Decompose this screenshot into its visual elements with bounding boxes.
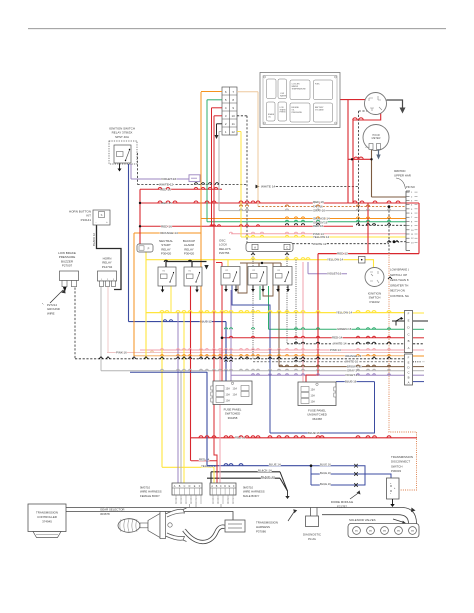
stub A blue (413, 381, 424, 383)
wire dashed riser 247 (246, 116, 248, 244)
wire dotted riser 296 (295, 260, 297, 344)
stub D green (413, 328, 424, 330)
wire BLUE 16 mid (270, 432, 375, 434)
ground wire leader (50, 290, 63, 303)
wire dotted riser 287 (286, 252, 288, 267)
svg-text:YELLOW 14: YELLOW 14 (336, 311, 352, 315)
wire brown from hour meter (371, 150, 373, 197)
svg-text:A: A (408, 381, 410, 385)
wire BLACK 16 horn (97, 225, 122, 290)
wire red hour meter feed (348, 158, 373, 160)
wire blue to disconnect switch b (356, 474, 365, 485)
relay K5 OSC lock 3 (273, 267, 292, 286)
svg-text:FEMALE BODY: FEMALE BODY (140, 494, 160, 498)
wire dashed stub (237, 115, 247, 117)
svg-text:GEAR SELECTOR: GEAR SELECTOR (100, 508, 125, 512)
relay K1 neutral start (158, 267, 176, 286)
svg-text:P16141: P16141 (81, 218, 92, 222)
svg-text:F: F (408, 355, 410, 359)
transmission controller (28, 504, 66, 532)
svg-text:8: 8 (411, 221, 413, 223)
top rule line (28, 28, 446, 30)
svg-text:GREATER TH: GREATER TH (390, 283, 408, 287)
bumps red 16 main (158, 201, 400, 203)
svg-text:YELLOW 14: YELLOW 14 (327, 258, 343, 262)
wire brown weave 1 (238, 263, 247, 293)
stub B dashed (413, 343, 424, 345)
junction dot blue (310, 464, 313, 467)
bumps orange 16 lower (161, 355, 391, 356)
svg-text:PRESSURE: PRESSURE (292, 112, 303, 114)
harness connector A (upper) (405, 311, 413, 353)
svg-text:PIN NO: PIN NO (406, 185, 415, 189)
relay K4 OSC lock 2 (248, 267, 267, 286)
svg-text:A: A (408, 346, 410, 350)
wire red riser 368 (367, 203, 369, 254)
wire yellow into connector B (213, 467, 215, 483)
svg-text:15A: 15A (311, 389, 316, 392)
stub D brown (413, 366, 424, 368)
wire red stub 2 (214, 115, 222, 117)
svg-text:CONTROLLER: CONTROLLER (37, 515, 57, 519)
junction dot brown (261, 262, 263, 264)
svg-text:SPST 40A: SPST 40A (115, 135, 129, 139)
wire red to fuse panel 2 (306, 254, 318, 382)
svg-text:P37086: P37086 (256, 530, 266, 534)
ignition switch relay (109, 141, 137, 164)
junction dot red bus 1 (139, 202, 141, 204)
svg-text:15A: 15A (226, 388, 231, 391)
svg-text:2: 2 (195, 499, 196, 501)
svg-text:WHITE-14: WHITE-14 (333, 342, 347, 346)
bump red keyswitch (353, 118, 363, 120)
wire yellow into ignition switch (365, 260, 374, 268)
bumps orange 14 (285, 217, 390, 219)
X marks blue stubs (354, 464, 358, 468)
svg-text:10: 10 (411, 230, 414, 232)
bumps green 16 (285, 220, 390, 222)
svg-text:BLUE 16: BLUE 16 (308, 431, 320, 435)
wire BLUE 16 stub 1 (311, 465, 356, 467)
wire tan stub (237, 91, 258, 93)
wire dotted riser 287 lower (286, 267, 288, 344)
bumps blue 14 (224, 464, 243, 466)
svg-text:12: 12 (232, 130, 236, 134)
bumps red lower (229, 336, 390, 338)
pin connector bracket (406, 191, 410, 251)
wire red riser 419 (418, 203, 420, 254)
svg-text:P27007: P27007 (62, 264, 73, 268)
svg-text:*-: *- (42, 302, 44, 306)
wire blue riser 226 (225, 322, 227, 381)
wire orange riser left (133, 233, 135, 356)
wire red riser 348 (347, 100, 349, 203)
wire VIOLET 16 to ignition switch (308, 273, 347, 275)
svg-text:WHITE-16: WHITE-16 (345, 360, 358, 364)
wire yellow stub (237, 131, 241, 133)
svg-text:6: 6 (217, 499, 218, 501)
svg-text:SWITCH: OP: SWITCH: OP (390, 273, 407, 277)
svg-text:D: D (189, 485, 191, 488)
svg-text:BLUE 16: BLUE 16 (320, 482, 331, 486)
wire orange riser 201 (200, 92, 202, 356)
wire violet riser 178 (177, 313, 179, 483)
bumps yellow 14 upper (245, 235, 304, 237)
svg-text:PLUG: PLUG (308, 537, 317, 541)
wire ORANGE-16 (134, 355, 405, 357)
svg-text:DIODE MODULE: DIODE MODULE (331, 500, 353, 504)
wire VIOLET 14 (231, 374, 405, 376)
svg-text:13: 13 (411, 242, 414, 244)
svg-text:RED 12: RED 12 (337, 252, 348, 256)
svg-text:BLUE 12: BLUE 12 (200, 320, 212, 324)
svg-text:VOLTAGE: VOLTAGE (315, 109, 324, 112)
svg-text:WHITE 12: WHITE 12 (159, 183, 174, 187)
wire black stub pin2 (216, 124, 218, 136)
svg-text:D: D (224, 485, 226, 488)
svg-text:METER: METER (372, 137, 381, 140)
OSC relay connector strip (246, 243, 293, 252)
junction dot (351, 158, 353, 160)
wire BROWN 16 (279, 366, 405, 368)
svg-text:364458: 364458 (312, 417, 322, 421)
wire brown hour meter to pin 2 (372, 196, 407, 198)
wire blue riser 270 (269, 371, 271, 433)
bumps black relay bus (164, 260, 192, 262)
svg-text:PRESS: PRESS (280, 112, 287, 114)
wire brown weave 2 (258, 263, 260, 267)
svg-text:1: 1 (185, 503, 186, 505)
svg-text:D: D (407, 325, 409, 329)
chevrons under OSC strip (251, 253, 289, 255)
wire dotted riser 253 (252, 252, 254, 359)
svg-text:UPPER HAR: UPPER HAR (394, 174, 411, 178)
svg-text:P: P (148, 247, 150, 251)
wire dashed riser 358 (358, 111, 360, 225)
wire GRAY-14 (101, 370, 405, 372)
svg-text:SOLENOID VALVES: SOLENOID VALVES (349, 518, 376, 522)
bumps pink lower (161, 349, 391, 350)
wire RED 16 b (140, 225, 353, 227)
wire yellow riser 184 (183, 313, 185, 483)
chevrons dashed right (387, 240, 399, 242)
stub F yellow (413, 312, 424, 314)
wire green riser 207 (206, 100, 208, 222)
wire gray riser 181 (180, 371, 182, 483)
svg-text:YELLOW 14: YELLOW 14 (313, 235, 329, 239)
svg-text:2: 2 (227, 499, 228, 501)
svg-text:WATER: WATER (280, 94, 287, 97)
wire RED-16 bottom (191, 437, 417, 439)
wire brown relay bus (240, 262, 281, 264)
svg-text:7: 7 (411, 217, 413, 219)
black jumper relays (166, 262, 207, 268)
svg-text:VIOLET 16: VIOLET 16 (161, 177, 177, 181)
wire red keyswitch loop (353, 111, 381, 203)
wire BLUE 14 (207, 465, 311, 467)
svg-text:C: C (407, 332, 409, 336)
svg-text:3: 3 (190, 503, 191, 505)
svg-text:P11002: P11002 (369, 300, 379, 304)
bumps gray 16 (239, 209, 390, 211)
svg-text:D: D (407, 366, 409, 370)
svg-text:10A: 10A (311, 401, 316, 404)
wire yellow riser 241 (240, 132, 242, 238)
svg-text:GREEN 16: GREEN 16 (337, 327, 352, 331)
wire green riser 268 (268, 286, 270, 329)
wire pink riser 303 (302, 262, 304, 382)
wire pale pink from horn relay (107, 287, 109, 353)
junction dot dashed (393, 240, 396, 243)
svg-text:P30420: P30420 (161, 252, 172, 256)
svg-text:ORANGE 14: ORANGE 14 (160, 231, 178, 235)
svg-text:303678: 303678 (100, 512, 110, 516)
svg-text:B: B (408, 376, 410, 380)
wire blue to disconnect switch a (356, 466, 365, 474)
keyswitch circle (365, 93, 387, 115)
harness bracket risers (190, 504, 222, 508)
wire blue 12 riser (128, 164, 130, 322)
svg-text:SWITCH: SWITCH (391, 464, 402, 468)
svg-text:PINK 16: PINK 16 (116, 351, 127, 355)
wire violet from relay (130, 164, 132, 179)
svg-text:***: *** (422, 362, 425, 364)
wire dashed to pin 12 (389, 241, 406, 243)
svg-text:VIOLET 16: VIOLET 16 (327, 272, 342, 276)
gear bracket (160, 512, 166, 539)
wire YELLOW 14 upper (241, 236, 406, 238)
svg-text:LESS THAN 8: LESS THAN 8 (390, 278, 409, 282)
svg-text:TRANSMISSION: TRANSMISSION (36, 511, 58, 515)
wire green from OSC relay (259, 286, 261, 300)
svg-text:4: 4 (180, 503, 181, 505)
horn button kit (93, 210, 110, 225)
bumps violet 14 (252, 374, 391, 375)
wire WHITE-16 (253, 361, 405, 363)
wire YELLOW 14 long (146, 312, 410, 314)
svg-text:FUEL: FUEL (315, 84, 320, 86)
svg-text:8: 8 (227, 503, 228, 505)
svg-text:2: 2 (175, 503, 176, 505)
wire PINK 14 (231, 233, 406, 235)
svg-text:5: 5 (411, 209, 413, 211)
svg-text:P30003: P30003 (391, 469, 401, 473)
svg-text:9: 9 (217, 503, 218, 505)
wire slate hour meter ground (378, 150, 380, 156)
svg-text:DISCONNECT: DISCONNECT (391, 460, 410, 464)
svg-text:RED 16: RED 16 (161, 224, 172, 228)
white 12 receptacle (137, 244, 153, 252)
wire dashed to pin 9 (358, 224, 406, 226)
svg-text:6: 6 (411, 213, 413, 215)
fuse panel switched (213, 381, 252, 405)
wire WHITE 12 upper (138, 184, 248, 186)
bumps white 12 (194, 183, 219, 185)
svg-text:WHITE 12: WHITE 12 (313, 242, 327, 246)
controller harness lines (66, 508, 417, 524)
svg-text:CONTROL NA: CONTROL NA (390, 294, 409, 298)
wire red riser 214 (214, 116, 217, 483)
wire ORANGE 14 (201, 218, 406, 220)
svg-text:OIL: OIL (268, 116, 271, 118)
chevron low brake pointer (388, 277, 392, 279)
instrument panel cluster (260, 73, 340, 128)
wire red riser 211 (211, 108, 213, 227)
svg-text:P20756: P20756 (219, 251, 230, 255)
svg-text:10A: 10A (233, 394, 238, 397)
svg-text:TRANSMISSION: TRANSMISSION (391, 455, 413, 459)
wire black ground converge b (280, 478, 288, 491)
svg-text:10A: 10A (226, 394, 231, 397)
relay K2 backup alarm (184, 267, 202, 286)
wire blue weave under relays (232, 286, 270, 371)
svg-text:12: 12 (411, 238, 414, 240)
svg-text:1: 1 (212, 503, 213, 505)
gear boot (148, 514, 160, 538)
svg-text:BLUE 16: BLUE 16 (320, 471, 331, 475)
svg-text:5: 5 (212, 499, 213, 501)
svg-text:BLUE 16: BLUE 16 (320, 463, 331, 467)
svg-text:TRANSMISSION: TRANSMISSION (256, 521, 278, 525)
svg-text:2: 2 (411, 196, 413, 198)
svg-text:F21797: F21797 (337, 505, 347, 509)
wire BLUE-16 fuse (336, 381, 375, 383)
svg-text:10A: 10A (311, 395, 316, 398)
bumps blue 12 (163, 320, 173, 322)
wire VIOLET 16 (131, 178, 189, 180)
svg-text:BLACK-14: BLACK-14 (258, 469, 272, 473)
wire yellow into OSC relay 1 (227, 260, 229, 267)
gear selector hose (184, 527, 225, 542)
wire BLACK-14 a (211, 471, 280, 473)
bumps brown 16 (280, 365, 391, 367)
svg-text:BLACK-14: BLACK-14 (261, 475, 275, 479)
relay K3 OSC lock 1 (221, 267, 240, 286)
wire orange stub (201, 91, 222, 93)
violet connector plug (189, 175, 200, 182)
wire BLACK-14 b (207, 477, 280, 479)
wire WHITE-14 lower (287, 343, 405, 345)
svg-text:11: 11 (232, 122, 235, 126)
svg-text:RED-14: RED-14 (332, 336, 343, 340)
stub A pink (413, 349, 424, 351)
wire BLUE 12 (129, 321, 227, 323)
wire violet riser (307, 262, 309, 274)
wire red bus left (139, 189, 141, 244)
svg-text:364458: 364458 (228, 416, 238, 420)
hour meter (363, 125, 389, 151)
bumps red bottom (199, 436, 391, 438)
svg-text:C: C (220, 485, 222, 488)
svg-text:3: 3 (180, 499, 181, 501)
stub E black (392, 320, 405, 322)
svg-text:374945: 374945 (42, 520, 52, 524)
wire blue riser 207 (206, 372, 208, 466)
wire black riser 211 (210, 472, 212, 483)
svg-text:11: 11 (411, 234, 414, 236)
svg-text:7: 7 (232, 499, 233, 501)
stub F orange (413, 355, 424, 357)
wire gray riser 219 (218, 132, 220, 211)
svg-text:B: B (408, 339, 410, 343)
wire WHITE 14 (272, 186, 358, 188)
bump red hour meter (354, 157, 363, 159)
wire blue riser 374 (374, 382, 376, 433)
wire pink riser 220 (219, 350, 221, 483)
wire PINK 16 row (107, 352, 412, 354)
bumps tan 16 (239, 205, 369, 207)
wire red into keyswitch (340, 99, 371, 101)
fuse panel unswitched (298, 382, 336, 406)
junction dot (370, 158, 372, 160)
wire ORANGE 14 left (134, 232, 201, 234)
wire dashed from ignition relay (137, 153, 139, 185)
svg-text:6: 6 (190, 499, 191, 501)
svg-text:3: 3 (411, 200, 413, 202)
bumps white lower (294, 342, 390, 344)
stub C red (413, 337, 424, 339)
wire WHITE 12 lower (247, 243, 389, 245)
svg-text:WIRE: WIRE (47, 311, 55, 315)
controller plug (33, 532, 61, 538)
junction dot tan (388, 205, 391, 208)
chevrons dashed row (99, 357, 391, 359)
bumps yellow keyswitch wire (251, 258, 310, 260)
svg-text:DIAGNOSTIC: DIAGNOSTIC (303, 533, 321, 537)
svg-text:P12704: P12704 (102, 265, 113, 269)
svg-text:HARNESS: HARNESS (256, 525, 270, 529)
svg-text:10A: 10A (226, 400, 231, 403)
svg-text:9M07DD: 9M07DD (394, 169, 405, 173)
wire gray stub (219, 131, 222, 133)
switch symbol E (396, 318, 402, 326)
wire blue riser 311 (310, 466, 312, 485)
wire BLUE 16 stub 2 (311, 473, 356, 475)
wire yellow riser 146 (145, 250, 147, 359)
svg-text:C: C (184, 485, 186, 488)
wire yellow from relay K1 (170, 286, 172, 313)
svg-text:RED 16: RED 16 (313, 200, 324, 204)
svg-text:9: 9 (411, 226, 413, 228)
junction dot red bus 2 (139, 225, 141, 227)
wire YELLOW 14 keyswitch (146, 259, 359, 261)
svg-text:BLUE-16: BLUE-16 (345, 380, 357, 384)
svg-text:10A: 10A (233, 388, 238, 391)
svg-text:BLUE 14: BLUE 14 (269, 463, 281, 467)
bumps yellow long wire (160, 311, 391, 313)
svg-text:S: S (101, 213, 103, 217)
wire yellow riser 162 (161, 313, 163, 468)
svg-text:4: 4 (411, 205, 413, 207)
wire dashed ground row (75, 358, 412, 360)
wire RED-16 a (140, 188, 222, 190)
svg-text:10: 10 (232, 114, 236, 118)
svg-text:C: C (407, 371, 409, 375)
wire violet riser 231 (230, 290, 232, 381)
wire RED-14 to connector (191, 460, 217, 462)
harness connector B (lower) (405, 354, 413, 385)
wire dotted disconnect loop (389, 253, 417, 490)
leader to pin connector (396, 178, 406, 189)
wire black ground converge a (280, 472, 288, 491)
yellow inline connector (359, 256, 366, 263)
connector block pins 1-12 (222, 87, 237, 135)
junction dot red (221, 337, 224, 340)
wire red stub (212, 107, 223, 109)
svg-text:8: 8 (175, 499, 176, 501)
svg-text:RED-14: RED-14 (199, 457, 210, 461)
svg-text:F: F (408, 312, 410, 316)
